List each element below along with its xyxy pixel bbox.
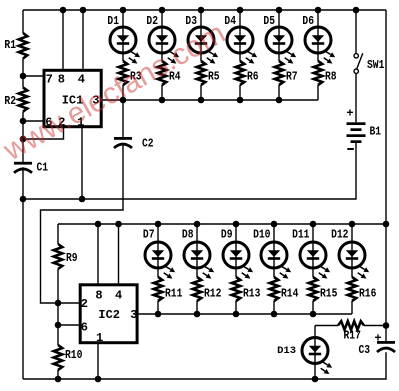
wire IC2 pin1 to bottom rail	[97, 343, 99, 379]
wire D5 anode	[278, 10, 280, 27]
wire pin6 node to R10	[57, 325, 59, 345]
resistor R8	[314, 61, 337, 85]
node D10 row2 bus	[271, 221, 278, 228]
wire D9 anode	[235, 224, 237, 242]
svg-text:D6: D6	[302, 15, 314, 28]
wire D11 anode	[312, 224, 314, 242]
svg-text:R2: R2	[4, 95, 16, 108]
node R4 row1 bus	[159, 97, 166, 104]
node pin8 top bus	[60, 7, 67, 14]
wire right rail upper	[385, 10, 387, 341]
node D12 row2 bus	[349, 221, 356, 228]
wire IC2 pin6	[58, 324, 80, 326]
svg-text:R13: R13	[243, 288, 260, 301]
svg-text:C3: C3	[359, 344, 371, 357]
resistor R2	[4, 88, 27, 112]
wire R5 to row1 bus	[200, 85, 202, 100]
svg-text:R12: R12	[204, 288, 221, 301]
node R13 row2 out bus	[233, 311, 240, 318]
wire left rail C1 to R2	[22, 112, 24, 162]
LED D7	[143, 228, 175, 278]
svg-text:R17: R17	[344, 330, 361, 343]
wire battery negative to left rail	[23, 143, 356, 199]
node R2 / IC1 pin6 junction	[20, 118, 27, 125]
wire D10 cathode to R14	[273, 268, 275, 277]
op-amp/timer IC2	[80, 285, 137, 345]
capacitor C1	[14, 162, 48, 175]
wire R8 to row1 bus	[317, 85, 319, 100]
wire IC1 pin7	[23, 75, 44, 77]
wire D7 cathode to R11	[157, 268, 159, 277]
resistor R5	[197, 61, 220, 85]
svg-text:8: 8	[58, 73, 65, 87]
node D4 top bus	[237, 7, 244, 14]
node R11 row2 out bus	[155, 311, 162, 318]
svg-text:D7: D7	[143, 228, 155, 241]
resistor R9	[54, 244, 78, 269]
wire D11 cathode to R15	[312, 268, 314, 277]
node D8 row2 bus	[194, 221, 201, 228]
svg-text:D13: D13	[277, 345, 296, 357]
resistor R12	[193, 277, 222, 301]
svg-text:D8: D8	[182, 228, 194, 241]
node R3 row1 bus	[120, 97, 127, 104]
node left rail / negative bus junction	[20, 196, 27, 203]
node D9 row2 bus	[233, 221, 240, 228]
wire D3 anode	[200, 10, 202, 27]
wire R6 to row1 bus	[239, 85, 241, 100]
resistor R11	[154, 277, 183, 301]
wire R9 to pin2 node	[57, 269, 59, 303]
wire R13 to row2 out bus	[235, 301, 237, 314]
svg-text:R1: R1	[4, 39, 16, 52]
svg-text:4: 4	[78, 73, 85, 87]
node R15 row2 out bus	[310, 311, 317, 318]
wire left rail R2 to R1	[22, 59, 24, 88]
resistor R17	[338, 321, 364, 342]
node R7 row1 bus	[276, 97, 283, 104]
wire R15 to row2 out bus	[312, 301, 314, 314]
wire IC1 pin3 output bus row1	[102, 99, 319, 101]
wire top supply bus	[23, 9, 386, 11]
battery B1	[346, 107, 381, 151]
wire IC1 pin4 to top bus	[82, 10, 84, 70]
svg-text:D1: D1	[107, 15, 119, 28]
wire IC2 pin4 to row2 bus	[118, 224, 120, 284]
svg-text:R9: R9	[66, 252, 78, 265]
node SW1 top bus	[353, 7, 360, 14]
wire D9 cathode to R13	[235, 268, 237, 277]
LED D5	[263, 15, 296, 64]
capacitor C3	[359, 332, 396, 358]
svg-text:7: 7	[46, 73, 53, 87]
wire IC1 pin2	[23, 127, 64, 139]
node D1 top bus	[120, 7, 127, 14]
wire row1 bus to C2	[122, 100, 124, 137]
wire D13 cathode to bottom rail	[314, 364, 316, 380]
svg-text:R16: R16	[359, 288, 376, 301]
wire D5 cathode to R7	[278, 53, 280, 61]
node pin4 top bus	[80, 7, 87, 14]
wire D8 anode	[196, 224, 198, 242]
LED D3	[185, 15, 218, 64]
node D5 top bus	[276, 7, 283, 14]
LED D1	[107, 15, 140, 64]
wire C2 to IC2 pin2	[41, 144, 124, 303]
wire left rail top	[22, 10, 24, 33]
svg-text:R10: R10	[65, 349, 82, 362]
wire D4 anode	[239, 10, 241, 27]
node D11 row2 bus	[310, 221, 317, 228]
wire R3 to row1 bus	[122, 85, 124, 100]
svg-text:3: 3	[130, 308, 137, 322]
svg-text:D11: D11	[292, 228, 309, 241]
wire IC2 pin3 output bus row2	[138, 313, 353, 315]
wire pin2 node to pin6 node	[57, 303, 59, 325]
wire D12 anode	[351, 224, 353, 242]
wire R14 to row2 out bus	[273, 301, 275, 314]
resistor R16	[348, 277, 377, 301]
resistor R13	[232, 277, 261, 301]
wire D10 anode	[273, 224, 275, 242]
resistor R7	[275, 61, 298, 85]
LED D12	[331, 228, 369, 278]
svg-text:D4: D4	[224, 15, 236, 28]
wire D6 cathode to R8	[317, 53, 319, 61]
LED D8	[182, 228, 214, 278]
svg-text:+: +	[374, 332, 381, 346]
svg-text:D3: D3	[185, 15, 197, 28]
wire D2 cathode to R4	[161, 53, 163, 61]
svg-text:B1: B1	[370, 126, 382, 139]
capacitor C2	[114, 137, 154, 151]
svg-text:D12: D12	[331, 228, 348, 241]
wire IC1 pin6	[23, 120, 44, 122]
LED D9	[221, 228, 253, 278]
svg-text:6: 6	[81, 321, 88, 335]
node pin4 row2 bus	[115, 221, 122, 228]
node R9 IC2 pin2	[55, 300, 62, 307]
LED D6	[302, 15, 335, 64]
node R10 bottom rail	[55, 376, 62, 383]
LED D13	[277, 326, 332, 375]
node pin8 row2 bus	[95, 221, 102, 228]
wire D1 anode	[122, 10, 124, 27]
svg-text:R11: R11	[165, 288, 182, 301]
wire R4 to row1 bus	[161, 85, 163, 100]
svg-text:R7: R7	[286, 71, 298, 84]
resistor R14	[270, 277, 299, 301]
LED D4	[224, 15, 257, 64]
node R1-R2 / IC1 pin7 junction	[20, 73, 27, 80]
wire D1 cathode to R3	[122, 53, 124, 61]
node R5 row1 bus	[198, 97, 205, 104]
wire R10 to bottom rail	[57, 370, 59, 379]
wire IC2 pin8 to row2 bus	[97, 224, 99, 284]
wire R17 to right rail	[364, 325, 386, 327]
LED D11	[292, 228, 330, 278]
node D2 top bus	[159, 7, 166, 14]
svg-text:D5: D5	[263, 15, 275, 28]
wire D6 anode	[317, 10, 319, 27]
wire D13 anode to R17	[315, 325, 338, 327]
resistor R4	[158, 61, 181, 85]
wire D3 cathode to R5	[200, 53, 202, 61]
switch SW1	[354, 10, 384, 122]
wire D12 cathode to R16	[351, 268, 353, 277]
wire R7 to row1 bus	[278, 85, 280, 100]
wire D7 anode	[157, 224, 159, 242]
svg-text:2: 2	[81, 297, 88, 311]
LED D2	[146, 15, 179, 64]
node R6 row1 bus	[237, 97, 244, 104]
resistor R10	[54, 345, 83, 370]
svg-text:D10: D10	[253, 228, 270, 241]
svg-text:R14: R14	[281, 288, 298, 301]
resistor R1	[4, 33, 27, 59]
svg-text:+: +	[346, 107, 353, 121]
wire bottom rail	[23, 352, 386, 379]
svg-text:SW1: SW1	[367, 59, 384, 72]
wire R12 to row2 out bus	[196, 301, 198, 314]
node row2 bus right rail	[383, 221, 390, 228]
wire R11 to row2 out bus	[157, 301, 159, 314]
wire D8 cathode to R12	[196, 268, 198, 277]
svg-text:R5: R5	[208, 71, 220, 84]
svg-text:4: 4	[115, 289, 122, 303]
node IC1 pin2 junction	[20, 136, 27, 143]
svg-text:1: 1	[96, 331, 103, 345]
wire bus to R9	[57, 224, 59, 244]
resistor R6	[236, 61, 259, 85]
svg-text:R8: R8	[325, 71, 337, 84]
wire IC1 pin8 to top bus	[62, 10, 64, 70]
node pin1 bottom rail	[95, 376, 102, 383]
svg-text:C2: C2	[142, 138, 154, 151]
wire R16 bottom corner	[351, 301, 353, 314]
node R10 IC2 pin6	[55, 322, 62, 329]
wire IC1 pin1 to negative bus	[81, 127, 83, 199]
LED D10	[253, 228, 291, 278]
op-amp/timer IC1	[44, 70, 101, 129]
svg-text:8: 8	[95, 289, 102, 303]
svg-text:C1: C1	[37, 162, 49, 175]
node R14 row2 out bus	[271, 311, 278, 318]
node D7 row2 bus	[155, 221, 162, 228]
wire D4 cathode to R6	[239, 53, 241, 61]
wire row2 supply bus	[58, 223, 386, 225]
node D6 top bus	[315, 7, 322, 14]
svg-text:R15: R15	[320, 288, 337, 301]
svg-text:D2: D2	[146, 15, 158, 28]
resistor R3	[119, 61, 142, 85]
svg-text:D9: D9	[221, 228, 233, 241]
wire D2 anode	[161, 10, 163, 27]
node R12 row2 out bus	[194, 311, 201, 318]
node D13 bottom rail	[312, 376, 319, 383]
wire left rail lower	[22, 167, 24, 379]
node pin1 negative bus	[79, 196, 86, 203]
node R17 right rail	[383, 322, 390, 329]
svg-text:IC2: IC2	[98, 308, 120, 322]
node D3 top bus	[198, 7, 205, 14]
svg-text:R6: R6	[247, 71, 259, 84]
resistor R15	[309, 277, 338, 301]
